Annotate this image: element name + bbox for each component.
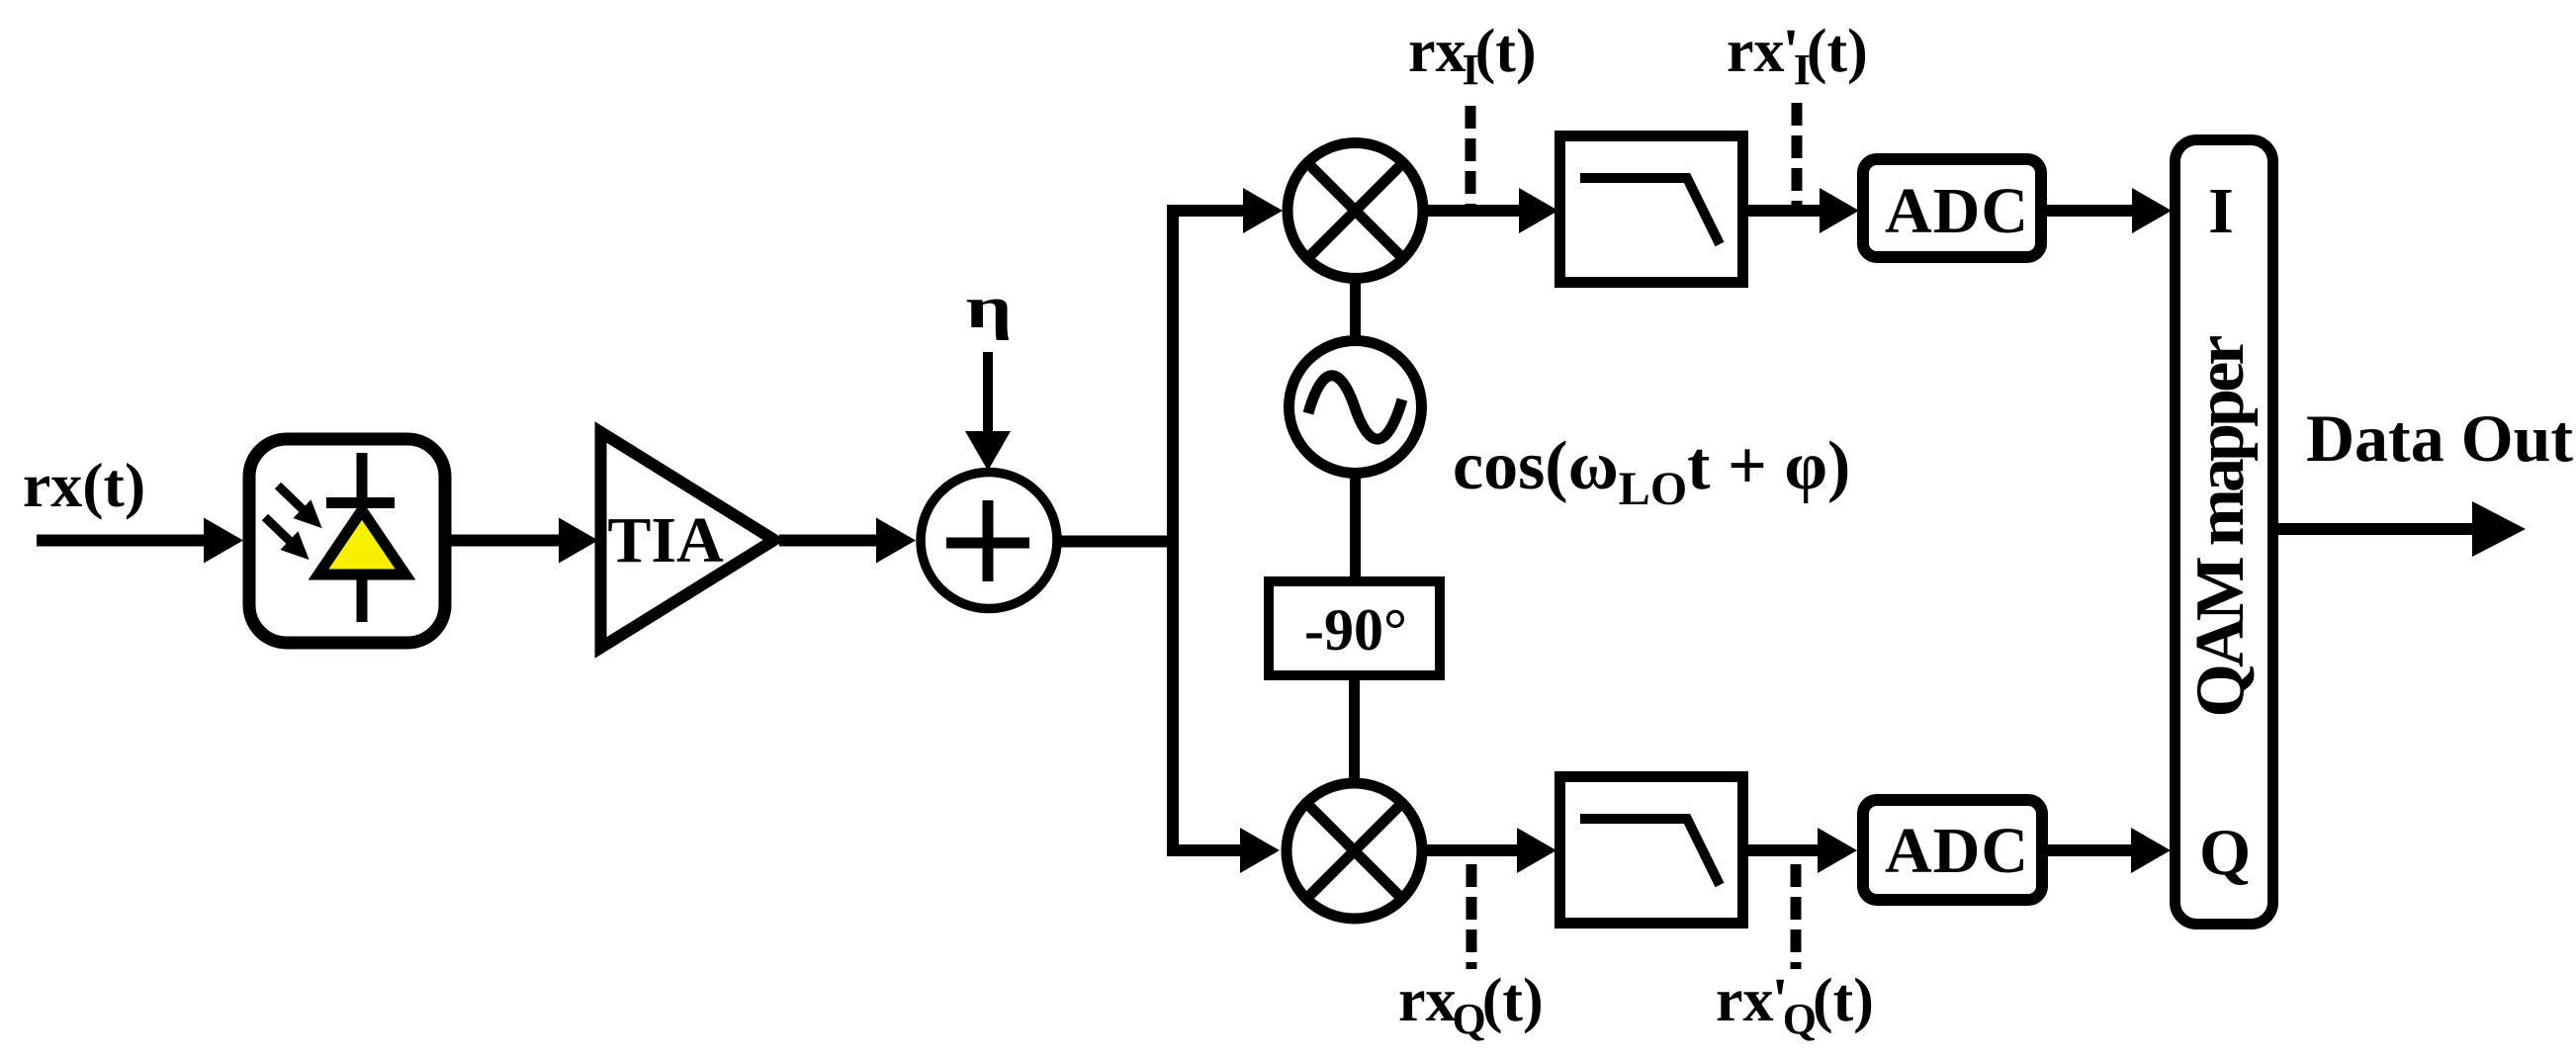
svg-text:Q: Q [2199,816,2251,889]
diode top lead [357,453,368,503]
QAM mapper U1 [2176,140,2273,925]
wire summer to node [1057,536,1173,548]
svg-text:Data Out: Data Out [2306,400,2573,476]
svg-text:rx'I(t): rx'I(t) [1727,18,1868,94]
summing junction S1 [921,473,1057,609]
wire LPF2 to ADC2 [1748,844,1818,856]
light arrow 2 [256,508,318,570]
svg-text:rx(t): rx(t) [23,450,145,520]
wire phase shifter to mixer M2 [1349,675,1360,784]
wire M1 to LO [1350,277,1361,341]
svg-text:QAM mapper: QAM mapper [2182,335,2259,718]
light arrow 1 [269,477,331,538]
wire TIA to summer [779,535,876,547]
wire LPF1 to ADC1 [1748,205,1820,217]
ADC1 [1863,159,2041,257]
mixer M1 [1288,143,1423,279]
wire QAM output [2278,523,2474,535]
diode bottom lead [357,577,368,622]
node branch vertical wire [1167,211,1179,850]
diode triangle (yellow) [318,510,405,575]
node rx_Q dashed probe [1466,864,1477,969]
mixer M2 [1287,783,1422,919]
wire eta arrow [983,352,993,433]
node rx_I dashed probe [1466,106,1476,205]
wire PD to TIA [451,535,560,547]
low-pass filter LPF2 [1560,777,1743,924]
wire node to mixer M1 [1167,205,1244,217]
node rx'_Q dashed probe [1791,864,1802,969]
svg-text:I: I [2208,175,2234,247]
ADC2 [1863,800,2042,900]
svg-text:-90°: -90° [1304,597,1407,663]
node rx'_I dashed probe [1792,103,1803,205]
oscillator LO [1289,341,1422,474]
op-amp TIA [601,432,775,648]
svg-text:ADC: ADC [1885,815,2029,887]
low-pass filter LPF1 [1560,136,1743,283]
photodiode PD1 [249,439,445,643]
svg-text:TIA: TIA [607,504,724,576]
diode cathode bar [326,497,395,508]
phase shifter -90 [1269,581,1440,675]
wire ADC1 to QAM [2041,205,2132,217]
wire LO to phase shifter [1350,473,1361,581]
svg-text:ADC: ADC [1885,175,2029,247]
wire node to mixer M2 [1167,844,1241,856]
wire ADC2 to QAM [2042,844,2131,856]
wire input [37,535,206,547]
wire M2 to LPF2 [1422,844,1517,856]
wire M1 to LPF1 [1423,205,1519,217]
svg-text:η: η [965,275,1012,340]
